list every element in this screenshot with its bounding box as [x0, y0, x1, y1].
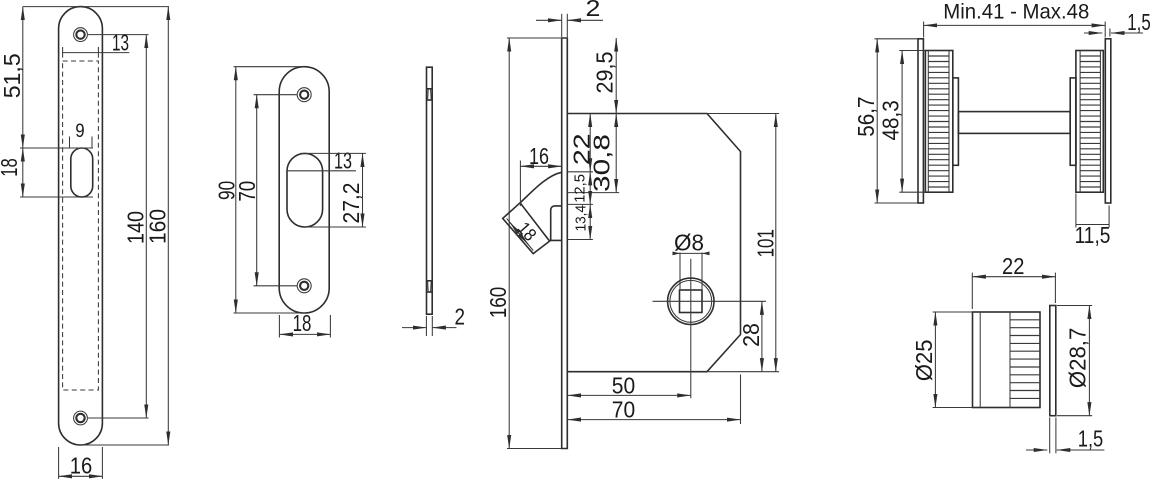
dimension 16 line: [59, 475, 103, 477]
svg-text:Ø25: Ø25: [911, 340, 937, 382]
dimension 70 line: [567, 419, 740, 421]
top extension line: [234, 66, 305, 68]
svg-text:Min.41 - Max.48: Min.41 - Max.48: [943, 1, 1089, 24]
svg-text:160: 160: [485, 287, 511, 319]
1,5 right arrow: [1111, 32, 1143, 34]
latch shaft top reference line: [567, 203, 593, 205]
1,5 left arrow: [1026, 449, 1047, 451]
left adapter step: [953, 78, 959, 165]
diam8 dimension line: [674, 252, 708, 254]
56,7 top extension: [875, 38, 919, 40]
connecting spindle shaft: [958, 112, 1070, 134]
dimension 160 line: [167, 7, 169, 445]
strike plate side view: [427, 67, 433, 314]
diam28,7 top extension: [1057, 305, 1092, 307]
bottom extension line: [234, 312, 306, 314]
oval top extension: [20, 147, 93, 149]
svg-text:70: 70: [612, 396, 635, 422]
svg-text:48,3: 48,3: [877, 100, 903, 140]
knurl boundary line: [1009, 312, 1011, 408]
diam8 arrows: [673, 252, 681, 256]
11,5 right extension: [1108, 206, 1110, 228]
bottom countersink: [427, 280, 433, 282]
2-dim left arrow: [536, 19, 562, 21]
svg-text:51,5: 51,5: [0, 53, 25, 98]
diam28,7 bottom extension: [1057, 415, 1092, 417]
13-dim right tick: [97, 47, 99, 58]
dimension 18 line at 45deg: [507, 218, 534, 250]
2-dim right arrow: [567, 19, 603, 21]
spindle follower circles: [668, 278, 714, 324]
lock faceplate edge view: [562, 38, 568, 449]
right rosette backplate: [1105, 39, 1111, 203]
latch bolt curve: [520, 172, 562, 203]
oval latch opening: [287, 153, 323, 227]
27,2 top extension: [300, 152, 366, 154]
min-max left extension: [923, 22, 925, 38]
svg-text:28: 28: [738, 323, 764, 347]
bottom hole extension: [254, 285, 298, 287]
2-dim left extension: [425, 316, 427, 336]
dimension 11,5 line: [1076, 224, 1109, 226]
svg-text:Ø28,7: Ø28,7: [1064, 328, 1090, 388]
svg-text:11,5: 11,5: [1075, 222, 1111, 248]
dimension 27,2 line: [362, 153, 364, 227]
diam8 right extension: [701, 253, 703, 290]
left knurled ring: [925, 51, 952, 193]
latch shaft bottom reference line: [567, 239, 593, 241]
spindle square 8mm: [680, 290, 703, 313]
svg-text:18: 18: [514, 218, 541, 245]
svg-text:16: 16: [529, 143, 549, 169]
horizontal centreline: [653, 300, 767, 302]
svg-text:29,5: 29,5: [592, 52, 618, 94]
2-dim left extension above faceplate: [561, 14, 563, 37]
oval slot: [71, 148, 93, 197]
svg-text:101: 101: [753, 229, 779, 257]
cylinder flange: [1050, 306, 1056, 416]
16-dim extension line: [519, 161, 521, 207]
svg-text:1,5: 1,5: [1078, 426, 1104, 452]
latch bolt shaft: [550, 206, 562, 241]
top hole extension: [254, 94, 298, 96]
svg-text:30,8: 30,8: [589, 134, 615, 192]
dimension Min.41 - Max.48 line: [924, 24, 1106, 26]
dimension 13 line: [63, 52, 130, 54]
top edge extension to 101 dim: [707, 113, 779, 115]
dimension 30,8 line: [615, 114, 617, 193]
70-dim right extension: [740, 375, 742, 425]
dimension 48,3 line: [901, 51, 903, 193]
9-dim left tick: [69, 137, 71, 148]
right adapter step: [1070, 78, 1076, 165]
dimension 160 line: [508, 38, 510, 449]
18-dim left extension: [278, 315, 280, 338]
cylinder body: [973, 312, 1041, 408]
22-dim left extension: [971, 273, 973, 309]
top hole centre extension: [88, 34, 149, 36]
vertical centreline: [690, 259, 692, 399]
min-max right extension: [1104, 22, 1106, 38]
svg-text:13: 13: [334, 147, 352, 173]
faceplate long front view outline: [59, 7, 103, 445]
bottom hole centre extension: [88, 417, 149, 419]
dimension 51,5 line: [22, 7, 24, 148]
dimension 50 line: [567, 394, 690, 396]
svg-text:22: 22: [1002, 253, 1024, 279]
dimension 13,4 line: [589, 204, 591, 239]
dimension 12,5 line: [589, 172, 591, 205]
lock case outline: [567, 114, 740, 372]
dimension 18 line: [22, 148, 24, 197]
dimension 13 line at oval tangent: [287, 170, 356, 172]
svg-text:70: 70: [234, 181, 260, 202]
left rosette backplate: [918, 39, 923, 203]
dimension diam28,7 line: [1088, 306, 1090, 416]
svg-text:18: 18: [293, 310, 312, 336]
latch top reference line: [567, 171, 593, 173]
1,5 right extension: [1109, 29, 1111, 37]
dimension 22 line: [589, 114, 591, 172]
oval bottom extension: [20, 196, 93, 198]
svg-text:2: 2: [586, 0, 601, 21]
diam25 top extension: [933, 311, 973, 313]
27,2 bottom extension: [306, 226, 366, 228]
dimension 29,5 line: [615, 38, 617, 114]
11,5 left extension: [1075, 194, 1077, 228]
top screw hole: [74, 28, 88, 42]
svg-text:9: 9: [75, 121, 84, 142]
16-dim left extension: [58, 447, 60, 479]
2-dim right extension above faceplate: [566, 14, 568, 37]
dimension 90 line: [235, 67, 237, 313]
1,5 right arrow: [1057, 449, 1105, 451]
top countersink: [427, 88, 433, 90]
bottom extension line: [81, 444, 169, 446]
1,5 left extension: [1049, 418, 1051, 454]
svg-text:Ø8: Ø8: [674, 230, 704, 256]
svg-text:160: 160: [144, 209, 170, 244]
bottom screw hole: [74, 411, 88, 425]
160 top extension: [507, 37, 562, 39]
diam8 left extension: [679, 253, 681, 290]
16-dim right extension: [101, 447, 103, 479]
9-dim right tick: [91, 137, 93, 148]
svg-text:27,2: 27,2: [338, 183, 364, 224]
top screw hole: [297, 88, 311, 102]
dimension diam25 line: [934, 312, 936, 408]
dimension 18 line: [279, 333, 330, 335]
svg-text:12,5: 12,5: [572, 174, 589, 203]
svg-text:13: 13: [112, 30, 129, 56]
bottom screw hole: [297, 279, 311, 293]
dimension 28 line: [761, 301, 763, 371]
top extension line: [23, 6, 169, 8]
svg-text:1,5: 1,5: [1127, 9, 1151, 35]
dimension 56,7 line: [876, 39, 878, 203]
2-dim right extension: [431, 316, 433, 336]
1,5 left arrow: [1084, 32, 1102, 34]
svg-text:56,7: 56,7: [853, 96, 879, 136]
latch bolt head: [503, 203, 550, 254]
hidden recess dashed rectangle: [63, 61, 99, 390]
2-dim left arrow: [402, 327, 426, 329]
30,8 reference line: [567, 192, 619, 194]
svg-text:2: 2: [454, 304, 465, 330]
48,3 top extension: [899, 50, 925, 52]
body inner line: [979, 312, 981, 408]
diam25 bottom extension: [933, 407, 973, 409]
strike plate front view outline: [279, 67, 329, 313]
dimension 101 line: [775, 114, 777, 372]
svg-text:50: 50: [612, 372, 635, 398]
160 bottom extension: [507, 448, 562, 450]
48,3 bottom extension: [899, 191, 925, 193]
svg-text:13,4: 13,4: [573, 205, 590, 231]
2-dim right arrow: [432, 327, 456, 329]
bottom edge extension to 101 dim: [707, 371, 779, 373]
dimension 140 line: [145, 35, 147, 418]
svg-text:18: 18: [0, 158, 22, 176]
56,7 bottom extension: [875, 202, 919, 204]
18-dim right extension: [329, 315, 331, 338]
13-dim left tick: [62, 47, 64, 58]
dimension 22 line: [972, 276, 1055, 278]
right knurled ring: [1076, 51, 1103, 193]
22-dim right extension: [1054, 273, 1056, 303]
1,5 right extension: [1055, 418, 1057, 454]
svg-text:16: 16: [70, 453, 93, 479]
dimension 70 line: [256, 95, 258, 286]
dimension 16 line: [520, 165, 561, 167]
